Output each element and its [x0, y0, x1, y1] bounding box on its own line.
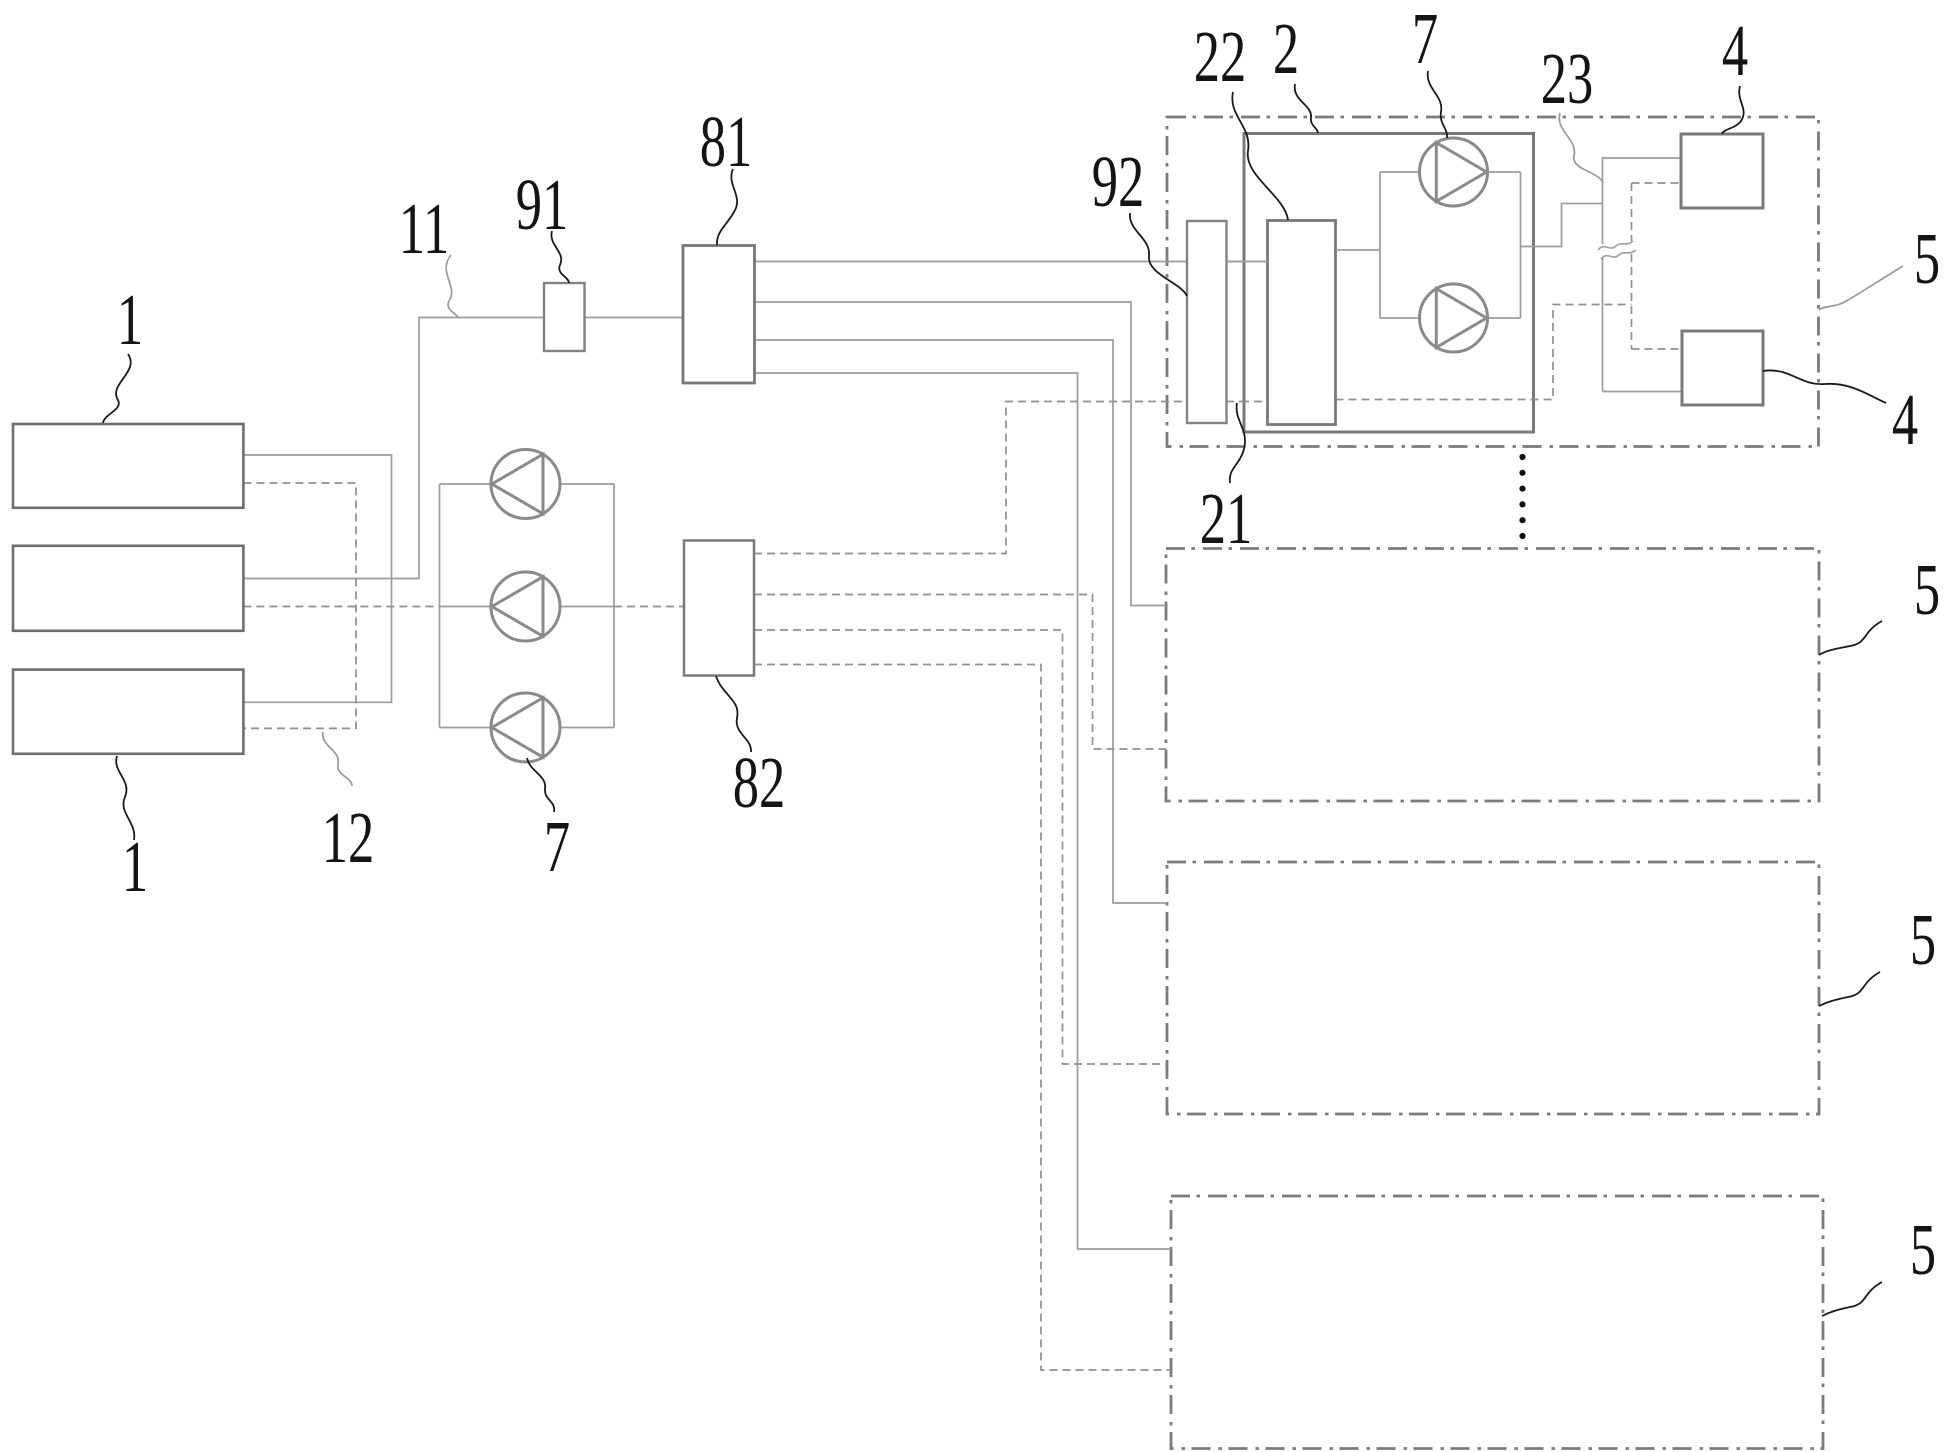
- wire: solid output of unit 2 to junction 23 staircase up to box 4 (upper): [1521, 158, 1682, 247]
- wire: middle pump branch: [440, 606, 493, 608]
- svg-text:81: 81: [700, 101, 753, 182]
- wire: solid vertical at junction 23 down to box 4 (lower), with break gap: [1602, 204, 1604, 245]
- wire: dashed stub to box 4 (lower): [1632, 348, 1683, 350]
- wire: solid output of source box 1a joining riser to source box 1c output: [243, 455, 391, 702]
- svg-text:5: 5: [1910, 1209, 1936, 1290]
- wire: pump bank right manifold: [613, 484, 615, 728]
- label 81 leader: [717, 169, 737, 245]
- label 81: [700, 101, 753, 182]
- indoor unit dash-dot enclosure 5 (top, containing unit 2 and boxes 4): [1167, 117, 1819, 447]
- wire: dashed D3 from header 82 into third enclosure 5: [754, 630, 1167, 1064]
- label 1 (top source): [117, 279, 143, 360]
- ellipsis dots between enclosures: [1519, 454, 1525, 539]
- wire: solid line L3 from header 81 down into third enclosure 5: [755, 340, 1168, 903]
- label 91 leader: [551, 231, 569, 283]
- heat exchanger 22 (tall box inside unit 2): [1268, 221, 1336, 425]
- label 21 leader: [1230, 403, 1245, 483]
- wire: dashed return of box 1b to pump bank left manifold: [243, 606, 439, 608]
- svg-text:5: 5: [1914, 218, 1940, 299]
- pump 7 (left bank, top): [491, 450, 560, 519]
- wire: pump loop right vertical: [1520, 172, 1522, 318]
- valve 91 on line 11: [544, 283, 585, 351]
- wire: solid line L2 from header 81 down into second enclosure 5: [755, 302, 1167, 606]
- wire: solid line L4 from header 81 down into fourth enclosure 5: [755, 373, 1172, 1249]
- supply header 81: [683, 246, 755, 384]
- label 7 (unit 2) leader: [1428, 71, 1447, 138]
- label 1 (bottom source): [122, 826, 148, 907]
- svg-text:11: 11: [399, 188, 450, 269]
- label 82: [733, 742, 786, 823]
- svg-text:1: 1: [117, 279, 143, 360]
- wire: solid line L1 from header 81 to filter 92 and heat exchanger 22: [755, 261, 1268, 263]
- wire: dashed D1 visible across unit-2 left border: [1241, 401, 1268, 403]
- label 4 (upper): [1722, 10, 1748, 91]
- wire: solid supply line 11 from vertical riser to valve 91: [419, 318, 544, 580]
- wire: solid output of source box 1b to riser of line 11: [243, 578, 419, 580]
- wire: dashed return 12 of box 1a joining riser to box 1c dashed output: [243, 483, 356, 728]
- wire: solid line from valve 91 to header 81: [585, 317, 684, 319]
- label 91: [516, 164, 569, 245]
- label 22 leader: [1232, 92, 1288, 220]
- return header 82: [684, 541, 754, 676]
- terminal box 4 (lower): [1682, 331, 1763, 405]
- svg-text:22: 22: [1194, 16, 1247, 97]
- wire: dashed from pump bank right manifold to header 82: [614, 606, 684, 608]
- wire: pump loop bottom branch: [1380, 317, 1421, 319]
- crossing break mark at junction 23: [1598, 241, 1633, 250]
- label 4 (lower): [1892, 379, 1918, 460]
- label 92: [1092, 141, 1145, 222]
- wire: dashed riser feeding boxes 4, with break gap: [1631, 183, 1633, 241]
- svg-text:5: 5: [1914, 549, 1940, 630]
- svg-text:82: 82: [733, 742, 786, 823]
- label 21: [1200, 478, 1253, 559]
- label 82 leader: [716, 676, 751, 752]
- wire: dashed D1 east segment from 22 through unit-2 wall toward risers: [1336, 305, 1632, 400]
- label 22: [1194, 16, 1247, 97]
- label 5 (top enclosure) leader: [1819, 266, 1903, 310]
- label 5 (second enclosure) leader: [1819, 621, 1882, 655]
- wire: dashed D2 from header 82 into second enclosure 5: [754, 595, 1166, 750]
- svg-text:12: 12: [322, 797, 375, 878]
- label 5 (third enclosure) leader: [1819, 972, 1880, 1006]
- svg-text:7: 7: [1412, 0, 1438, 79]
- wire: segment of L1 between 92 and 22: [1227, 261, 1268, 263]
- pump 7 (left bank, bottom): [491, 693, 560, 762]
- svg-text:21: 21: [1200, 478, 1253, 559]
- heat source box 1 (top): [13, 424, 243, 508]
- svg-text:23: 23: [1541, 38, 1594, 119]
- label 5 (fourth enclosure): [1910, 1209, 1936, 1290]
- indoor unit dash-dot enclosure 5 (fourth): [1171, 1196, 1823, 1449]
- terminal box 4 (upper): [1681, 134, 1763, 208]
- wire: pump loop top branch: [1380, 171, 1421, 173]
- label 4 (lower) leader: [1763, 370, 1886, 403]
- label 7 (left bank): [544, 806, 570, 887]
- label 1 (bottom source) leader: [116, 756, 134, 840]
- label 12: [322, 797, 375, 878]
- label 12 leader: [323, 732, 352, 786]
- indoor unit dash-dot enclosure 5 (second): [1166, 549, 1819, 802]
- label 4 (upper) leader: [1722, 86, 1744, 134]
- svg-text:92: 92: [1092, 141, 1145, 222]
- indoor unit dash-dot enclosure 5 (third): [1167, 862, 1819, 1114]
- svg-text:7: 7: [544, 806, 570, 887]
- label 11: [399, 188, 450, 269]
- wire: top pump branch: [440, 483, 493, 485]
- label 11 leader: [446, 255, 458, 317]
- wire: pump loop left vertical: [1379, 172, 1381, 318]
- svg-text:2: 2: [1273, 8, 1299, 89]
- svg-text:4: 4: [1722, 10, 1748, 91]
- wire: dashed stub to box 4 (upper): [1632, 182, 1682, 184]
- heat source box 1 (bottom): [13, 670, 243, 754]
- heat source box 1 (middle): [13, 546, 243, 631]
- label 5 (third enclosure): [1910, 899, 1936, 980]
- heat pump unit 2 (outer solid box): [1244, 134, 1534, 433]
- pump 7 (left bank, middle): [491, 572, 560, 641]
- label 92 leader: [1130, 213, 1187, 296]
- label 5 (second enclosure): [1914, 549, 1940, 630]
- label 5 (fourth enclosure) leader: [1822, 1282, 1882, 1316]
- svg-text:5: 5: [1910, 899, 1936, 980]
- wire: from heat exchanger 22 to pump loop: [1336, 249, 1381, 251]
- label 7 (unit 2): [1412, 0, 1438, 79]
- svg-text:91: 91: [516, 164, 569, 245]
- filter 92: [1187, 221, 1227, 423]
- label 2: [1273, 8, 1299, 89]
- pump 7 (unit 2, lower): [1420, 284, 1488, 352]
- label 2 leader: [1295, 84, 1318, 133]
- wire: dashed D1 from header 82 up and to heat exchanger 22 (passes behind 92): [754, 402, 1268, 554]
- label 1 (top source) leader: [103, 354, 131, 423]
- label 23 leader: [1559, 113, 1603, 183]
- wire: bottom pump branch: [440, 727, 493, 729]
- label 23: [1541, 38, 1594, 119]
- wire: dashed D4 from header 82 into fourth enclosure 5: [754, 665, 1171, 1371]
- pump 7 (unit 2, upper): [1420, 138, 1488, 206]
- label 7 (left bank) leader: [527, 758, 554, 812]
- svg-text:4: 4: [1892, 379, 1918, 460]
- svg-text:1: 1: [122, 826, 148, 907]
- label 5 (top enclosure): [1914, 218, 1940, 299]
- wire: pump bank left manifold: [439, 484, 441, 728]
